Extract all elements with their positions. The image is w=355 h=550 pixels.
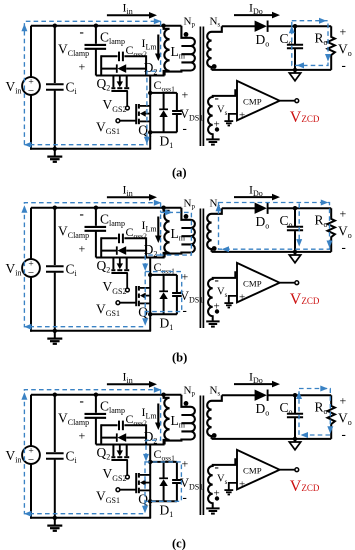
arrow current down to bottom [142,318,148,326]
diode D1 [159,275,168,314]
diode D2 [101,433,146,442]
svg-text:Do: Do [256,214,270,231]
current path to Q1 block dashed [145,255,160,269]
clamp box right edge wire [145,55,147,76]
svg-text:-: - [80,393,84,408]
arrow current left bottom [24,511,32,517]
transistor Q1 [120,76,150,149]
circuit panel (a) active clamp flyback on-time [6,1,352,180]
circuit panel (c) clamp interval [6,370,352,550]
capacitor Ci [46,24,64,152]
current path primary loop right segment [24,21,160,144]
svg-text:Ci: Ci [66,449,78,466]
svg-text:+: + [340,394,347,408]
svg-text:D1: D1 [160,134,174,151]
wire D1-Coss1 block top [150,461,177,463]
svg-text:Ro: Ro [315,400,328,417]
svg-text:-: - [342,240,346,255]
svg-text:IDo: IDo [249,183,263,199]
phase dot Ns [212,433,217,438]
arrow current down Q1 [144,137,150,145]
svg-text:VClamp: VClamp [58,224,89,241]
op-amp CMP comparator [237,263,280,303]
current path output loop dashed [292,21,328,66]
wire CMP output [280,469,295,471]
phase dot Vs [215,127,219,131]
winding Np [165,26,195,76]
terminal VZCD [295,281,299,285]
svg-text:+: + [182,270,189,284]
terminal VGS1 [116,301,120,305]
capacitor Co [287,206,303,254]
svg-text:D1: D1 [160,503,174,520]
svg-text:+: + [79,429,86,443]
svg-text:+: + [182,457,189,471]
wire secondary top [222,394,255,396]
core line left [199,27,201,147]
arrow output loop up [289,26,295,34]
svg-text:Coss1: Coss1 [154,260,176,276]
wire top rail panel c [31,394,181,396]
transistor Q2 [111,445,129,475]
wire CMP plus input to ground [229,114,237,121]
svg-text:Clamp: Clamp [100,211,125,228]
wire left rail lower [30,464,32,519]
svg-text:ILm: ILm [142,218,158,234]
svg-text:IDo: IDo [249,370,263,386]
resistor Ro [328,26,335,70]
svg-text:Vo: Vo [338,411,352,428]
arrow current down Co [296,239,302,247]
svg-text:+: + [79,242,86,256]
arrow secondary up left [216,204,222,212]
svg-text:Ci: Ci [66,80,78,97]
transistor Q1 [120,445,150,518]
circuit panel (b) energy transfer interval [6,183,352,365]
svg-text:(a): (a) [172,166,187,180]
svg-text:Do: Do [256,401,270,418]
capacitor Coss1 [172,462,182,501]
arrow circulation right [165,209,173,215]
arrow current right top [154,387,162,393]
svg-text:Co: Co [280,213,293,230]
svg-text:Vin: Vin [6,448,22,465]
wire secondary top [222,25,255,27]
phase dot Vs [215,309,219,313]
svg-text:Ro: Ro [315,213,328,230]
clamp box left edge wire [100,424,102,445]
svg-text:-: - [215,459,219,474]
current path D1-Coss1 block dashed [145,272,182,312]
diode D2 [101,246,146,255]
capacitor Co [287,24,303,72]
wire D1-Coss1 block bottom [150,500,177,502]
svg-text:+: + [239,292,245,304]
current path primary outer dashed [24,203,160,327]
arrow current left bottom [24,324,32,330]
current path primary loop dashed [24,390,160,514]
arrow current left bottom [24,142,32,148]
svg-text:Np: Np [184,385,196,398]
current path block to bottom dashed [144,501,146,511]
svg-text:CMP: CMP [243,97,262,107]
svg-text:VGS2: VGS2 [103,466,127,483]
capacitor Coss1 [172,275,182,314]
svg-text:VZCD: VZCD [290,109,320,126]
phase dot Ns [212,246,217,251]
svg-text:Clamp: Clamp [100,29,125,46]
svg-text:Q2: Q2 [97,445,111,462]
wire CMP output [280,282,295,284]
ground CMP plus input [224,120,233,122]
capacitor Coss2 [101,234,146,244]
svg-text:Coss1: Coss1 [154,447,176,463]
current path clamp descent dashed [146,390,161,460]
phase dot Np [184,32,189,37]
svg-text:Vs: Vs [217,287,228,300]
arrow current up left rail [21,392,27,400]
wire switch node [96,257,165,259]
ground output open triangle [289,252,300,263]
wire left rail upper [30,208,32,260]
core line left [199,396,201,516]
svg-text:(b): (b) [172,351,187,365]
svg-text:Vo: Vo [338,42,352,59]
svg-text:D2: D2 [144,60,158,77]
phase dot Ns [212,64,217,69]
terminal VGS1 [116,119,120,123]
arrow output loop right [319,18,327,24]
svg-text:VClamp: VClamp [58,42,89,59]
capacitor Coss2 [101,52,146,62]
wire CMP output [280,100,295,102]
svg-text:CMP: CMP [243,279,262,289]
winding Ns [207,26,222,70]
ground main panel b [47,331,62,344]
arrow current up left rail [21,24,27,32]
inductor Lm [164,26,170,76]
svg-text:Vin: Vin [6,261,22,278]
clamp box left edge wire [100,55,102,76]
wire secondary bottom [212,69,332,71]
arrow current right top [154,200,162,206]
arrow secondary down right [327,241,333,249]
capacitor Co [287,393,303,441]
arrow IDo [234,12,280,19]
diode D1 [159,93,168,132]
svg-text:Q2: Q2 [97,76,111,93]
svg-text:-: - [342,58,346,73]
svg-text:Co: Co [280,400,293,417]
capacitor Ci [46,393,64,521]
source Vin panel b [22,259,40,279]
arrow Iin [107,12,157,19]
svg-text:Vs: Vs [217,474,228,487]
svg-text:VClamp: VClamp [58,411,89,428]
current path primary loop dashed [24,21,160,144]
arrow output loop up [296,392,302,400]
ground Vs [206,320,219,322]
wire CMP plus input to ground [229,483,237,490]
wire D1-Coss1 block top [150,92,177,94]
svg-text:D1: D1 [160,316,174,333]
diode D2 [101,64,146,73]
capacitor Cclamp [85,206,107,258]
ground Vs [206,138,219,140]
winding Np [165,395,195,445]
current path block to bottom dashed [144,312,146,324]
terminal VGS2 [126,106,130,110]
svg-text:+: + [340,25,347,39]
capacitor Cclamp [85,24,107,76]
svg-text:-: - [80,24,84,39]
svg-text:VGS2: VGS2 [103,97,127,114]
svg-text:Vin: Vin [6,79,22,96]
svg-text:D2: D2 [144,429,158,446]
ground main panel c [47,518,62,531]
phase dot Np [184,214,189,219]
diode D1 [159,462,168,501]
resistor Ro [328,395,335,439]
svg-text:Iin: Iin [123,370,133,386]
svg-text:Ns: Ns [210,385,221,398]
core line right [202,209,204,329]
arrow output loop down [325,54,331,62]
svg-text:Ns: Ns [210,16,221,29]
arrow current down into block [143,454,149,462]
arrow secondary right top [321,200,329,206]
svg-text:+: + [79,60,86,74]
svg-text:-: - [80,206,84,221]
wire bottom rail [30,148,151,150]
svg-text:Np: Np [184,16,196,29]
arrow IDo [234,194,280,201]
wire D1-Coss1 block bottom [150,131,177,133]
winding Vs auxiliary [208,272,237,321]
wire bottom rail [30,517,151,519]
resistor Ro [328,208,335,252]
transistor Q2 [111,76,129,106]
svg-text:VZCD: VZCD [290,478,320,495]
svg-text:Ro: Ro [315,31,328,48]
op-amp CMP comparator [237,81,280,121]
inductor Lm [164,395,170,445]
svg-text:Ci: Ci [66,262,78,279]
diode Do [255,203,268,214]
terminal VGS1 [116,488,120,492]
clamp box left edge wire [100,237,102,258]
wire D1-Coss1 block top [150,274,177,276]
wire left rail lower [30,277,32,332]
capacitor Cclamp [85,393,107,445]
svg-text:Iin: Iin [123,1,133,17]
capacitor Coss2 [101,421,146,431]
svg-text:+: + [239,479,245,491]
capacitor Ci [46,206,64,334]
terminal VGS2 [126,288,130,292]
svg-text:Vo: Vo [338,224,352,241]
ground main panel a [47,149,62,162]
terminal VZCD [295,99,299,103]
transistor Q1 [120,258,150,331]
svg-text:Q2: Q2 [97,258,111,275]
svg-text:+: + [182,88,189,102]
wire top rail panel a [31,25,181,27]
winding Vs auxiliary [208,90,237,139]
phase dot Vs [215,496,219,500]
wire secondary top [222,207,255,209]
arrow ILm [155,404,162,431]
svg-text:-: - [183,121,187,136]
clamp box right edge wire [145,237,147,258]
svg-text:-: - [342,427,346,442]
wire secondary bottom [212,251,332,253]
svg-text:Clamp: Clamp [100,398,125,415]
arrow output loop down [327,426,333,434]
ground CMP plus input [224,302,233,304]
arrow current up left rail [21,205,27,213]
svg-text:Coss1: Coss1 [154,78,176,94]
wire left rail upper [30,395,32,447]
arrow IDo [234,381,280,388]
svg-text:Iin: Iin [123,183,133,199]
ground output open triangle [289,70,300,81]
current path Lm-Np circulation dashed [161,212,192,255]
svg-text:ILm: ILm [142,405,158,421]
wire switch node [96,444,165,446]
wire bottom rail [30,330,151,332]
ground output open triangle [289,439,300,450]
svg-text:Do: Do [256,32,270,49]
terminal VZCD [295,468,299,472]
arrow output loop left [297,62,305,68]
svg-text:+: + [239,110,245,122]
source Vin panel a [22,77,40,97]
arrow current down into block [142,264,148,272]
wire secondary bottom [212,438,332,440]
current path Co branch dashed [298,204,300,244]
wire left rail upper [30,26,32,78]
arrow output loop left [301,432,309,438]
current path D1-Coss1 block dashed [145,462,181,501]
core line left [199,209,201,329]
diode Do [255,21,268,32]
svg-text:+: + [340,207,347,221]
current path output loop dashed [299,389,330,436]
arrow output loop right [320,386,328,392]
svg-text:VZCD: VZCD [290,291,320,308]
svg-text:(c): (c) [172,537,186,550]
wire dashed descent from top [160,203,162,213]
svg-text:ILm: ILm [142,36,158,52]
svg-text:-: - [215,90,219,105]
transistor Q2 [111,258,129,288]
arrow Iin [107,381,157,388]
arrow current down to bottom [142,506,148,514]
arrow secondary left bottom [222,246,230,252]
wire switch node [96,75,165,77]
svg-text:-: - [215,272,219,287]
svg-text:CMP: CMP [243,466,262,476]
arrow ILm [155,35,162,62]
core line right [202,27,204,147]
inductor Lm [164,208,170,258]
ground Vs [206,507,219,509]
winding Np [165,208,195,258]
op-amp CMP comparator [237,450,280,490]
winding Vs auxiliary [208,459,237,508]
clamp box right edge wire [145,424,147,445]
svg-text:-: - [183,303,187,318]
current path secondary loop dashed [219,203,330,250]
svg-text:Np: Np [184,198,196,211]
arrow Iin [107,194,157,201]
arrow ILm [155,217,162,244]
arrow current right top [154,18,162,24]
svg-text:IDo: IDo [249,1,263,17]
winding Ns [207,208,222,252]
source Vin panel c [22,446,40,466]
diode Do [255,390,268,401]
capacitor Coss1 [172,93,182,132]
phase dot Np [184,401,189,406]
winding Ns [207,395,222,439]
wire D1-Coss1 block bottom [150,313,177,315]
svg-text:Vs: Vs [217,105,228,118]
wire left rail lower [30,95,32,150]
svg-text:Co: Co [280,31,293,48]
wire top rail panel b [31,207,181,209]
core line right [202,396,204,516]
svg-text:-: - [183,490,187,505]
wire CMP plus input to ground [229,296,237,303]
svg-text:VGS2: VGS2 [103,279,127,296]
ground CMP plus input [224,489,233,491]
terminal VGS2 [126,475,130,479]
